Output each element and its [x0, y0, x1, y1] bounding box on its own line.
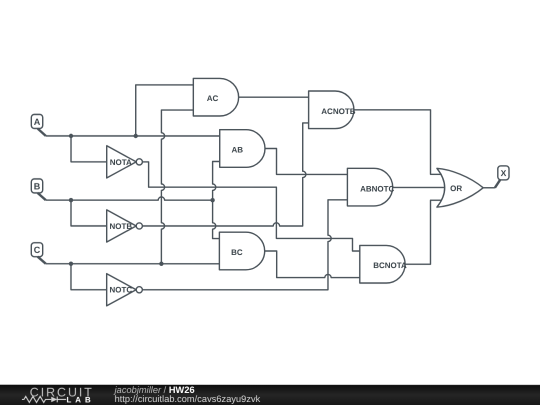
wire ACNOTB output to OR top input [354, 110, 442, 175]
junction C/AC-lower riser [159, 262, 163, 266]
wire B riser to AB lower and BC upper inputs [213, 161, 220, 238]
svg-text:NOTC: NOTC [109, 286, 132, 295]
wire C to AC lower input (riser with hops) [161, 110, 193, 264]
node X flag [495, 166, 509, 188]
node A flag [31, 114, 46, 136]
wire A to NOTA input [71, 136, 107, 162]
wire AC output to ACNOTB upper input [239, 96, 309, 98]
svg-text:LAB: LAB [66, 395, 94, 404]
svg-text:AC: AC [207, 94, 219, 103]
svg-text:http://circuitlab.com/cavs6zay: http://circuitlab.com/cavs6zayu9zvk [115, 394, 261, 404]
and-gate BCNOTA [360, 245, 407, 283]
svg-text:NOTA: NOTA [110, 158, 132, 167]
and-gate ACNOTB [309, 91, 356, 129]
svg-text:OR: OR [450, 184, 462, 193]
svg-text:ABNOTC: ABNOTC [360, 184, 394, 193]
svg-text:BCNOTA: BCNOTA [373, 261, 407, 270]
wire A to AC upper input [136, 85, 194, 136]
wire OR output [483, 187, 495, 189]
wire BCNOTA output to OR bottom input [405, 200, 442, 264]
wire NOTC output to ABNOTC lower input [142, 200, 347, 290]
inverter NOTB [107, 210, 143, 242]
svg-text:NOTB: NOTB [109, 222, 132, 231]
junction B/NOTB [69, 198, 73, 202]
wire NOTB output to ACNOTB lower input [142, 123, 308, 226]
wire C to NOTC input [71, 264, 107, 290]
inverter NOTA [107, 146, 143, 178]
svg-text:BC: BC [231, 248, 243, 257]
wire net C horizontal [46, 263, 220, 265]
and-gate AB [220, 130, 265, 168]
and-gate AC [193, 78, 238, 116]
wire NOTA output to BCNOTA upper input [142, 162, 359, 251]
CircuitLab logo wordmark [30, 385, 95, 404]
wire net B horizontal with hop [46, 197, 213, 200]
footer bar [0, 385, 540, 405]
or-gate OR [437, 168, 483, 207]
junction A/AC [134, 134, 138, 138]
svg-text:C: C [34, 245, 41, 255]
wire BC output to BCNOTA lower input (hop) [265, 251, 360, 278]
wire B to NOTB input [71, 200, 107, 226]
wire AB output to ABNOTC upper input [265, 148, 347, 174]
svg-text:ACNOTB: ACNOTB [321, 107, 355, 116]
inverter NOTC [107, 274, 143, 306]
svg-text:B: B [34, 181, 41, 191]
footer url text [115, 394, 261, 404]
junction A/NOTA [69, 134, 73, 138]
wire net A horizontal [46, 135, 220, 137]
node C flag [31, 243, 46, 264]
svg-text:X: X [501, 168, 507, 178]
CircuitLab logo resistor and diode glyph [22, 396, 66, 402]
wire ABNOTC output to OR middle input [393, 186, 445, 188]
and-gate BC [219, 232, 264, 270]
footer title text jacobjmiller / HW26 [113, 385, 195, 395]
svg-text:A: A [34, 117, 41, 127]
and-gate ABNOTC [347, 168, 394, 206]
junction B/AB-BC riser [210, 198, 214, 202]
node B flag [31, 179, 46, 200]
junction C/NOTC [69, 262, 73, 266]
svg-text:AB: AB [232, 145, 244, 154]
